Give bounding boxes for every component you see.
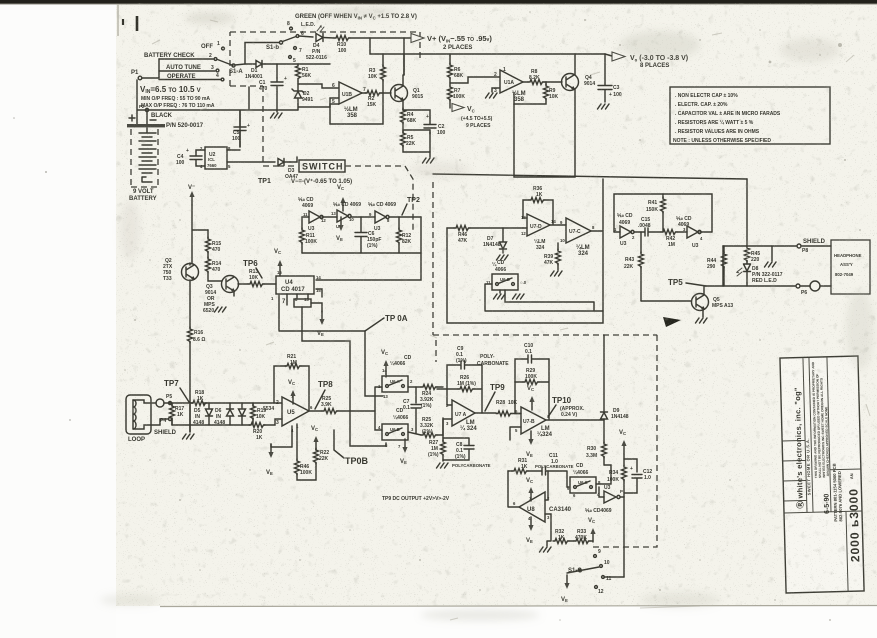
wire R16 line to gnd [183, 403, 195, 439]
ground below C3 [598, 104, 610, 109]
connector P5 [151, 394, 172, 407]
wire D1 to node [265, 63, 330, 65]
capacitor C6 150pF [355, 217, 381, 253]
Vc arrow U8 [526, 478, 534, 501]
resistor R5 22K [401, 130, 416, 147]
resistor R7 100K [448, 85, 466, 108]
search loop coil [126, 395, 151, 443]
wire Q2 emitter down [189, 263, 191, 328]
wire TP5 node [704, 283, 747, 294]
Vc arrow R34 [619, 430, 627, 454]
resistor R42 1M [661, 230, 687, 249]
resistor R4 68K [401, 108, 417, 130]
SWITCH dashed label [278, 160, 413, 231]
diode D3 OA47 [278, 159, 298, 181]
wire U4 control to U6A [365, 331, 383, 396]
VE arrow U5 [266, 440, 292, 476]
box B enclosure [614, 194, 712, 232]
wire U2 pin8 up to C5 [227, 111, 240, 150]
analog switch U6-B [378, 424, 414, 449]
capacitor C11 1.0 [535, 453, 574, 487]
VE arrow osc [336, 217, 344, 242]
wire U7C out to box edge [591, 230, 603, 232]
dashed box mid right [433, 182, 657, 547]
resistor R44 290 [707, 246, 727, 286]
switch S1-A [201, 41, 243, 81]
transistor Q1 9015 [391, 85, 424, 102]
diode D6 1N4148 [214, 403, 234, 426]
capacitor C7 0.1 [403, 399, 421, 411]
wire U8 pin3 to R32 [545, 514, 551, 546]
wire R30 to U6C net [596, 465, 611, 484]
resistor R1 56K [296, 64, 312, 81]
resistor R36 1K [523, 186, 553, 224]
wire D3 onward [290, 157, 297, 162]
opamp U7-D [521, 214, 556, 251]
diode D9 1N4148 [601, 335, 629, 443]
resistor R30 3.3M [586, 442, 607, 465]
resistor R22 22K [314, 448, 330, 466]
label OPERATE [159, 74, 221, 80]
wire R1 junction to U1B [298, 84, 338, 88]
ink blob arrow [663, 317, 681, 327]
battery 9V [127, 124, 165, 202]
label BATTERY CHECK [144, 53, 213, 59]
switch S1-C [567, 549, 612, 595]
resistor R6 68K [448, 54, 464, 86]
page bottom edge [160, 606, 877, 607]
Vc arrow U5 [288, 380, 296, 404]
capacitor C1 470 [259, 76, 287, 92]
resistor R3 10K [368, 54, 386, 93]
wire U7D out to U7C [550, 224, 566, 226]
label TP6 [243, 259, 262, 278]
wire U4 control to U6B [302, 307, 386, 446]
Vc arrow R22 [311, 426, 319, 450]
V* arrow top [188, 185, 195, 205]
grounds U6D [494, 290, 525, 299]
resistor R9 10K [514, 82, 559, 104]
resistor R33 470K [569, 529, 593, 544]
label TP0B [334, 430, 369, 466]
VE arrow below U4 [317, 311, 325, 337]
resistor R24 3.92K [420, 385, 443, 410]
diode D6b [239, 403, 246, 425]
resistor R27 1M [428, 435, 446, 461]
U5 pin wires below [292, 424, 297, 460]
resistor R20 1K [249, 423, 265, 442]
label BLACK [150, 113, 173, 120]
VE arrow U6B [400, 439, 408, 465]
wire rail down x404 [403, 38, 405, 75]
inverter U3c [369, 211, 390, 232]
wire bottom row y425 [172, 419, 282, 425]
label AUTO TUNE [159, 65, 215, 71]
Vo output arrow [612, 52, 688, 69]
resistor R32 1K [553, 529, 569, 544]
node P1 [131, 70, 142, 80]
resistor R15 470 [206, 230, 222, 258]
ground R32 [540, 547, 552, 552]
wire Q4 collector to rail [574, 54, 576, 75]
LED D4 green [306, 26, 327, 61]
resistor R29 100K [515, 359, 549, 420]
P6 wire [723, 281, 831, 296]
label TP10 [548, 396, 585, 418]
VE arrow U8 [526, 517, 534, 544]
opamp U1A [494, 67, 526, 103]
resistor R46 47K [447, 226, 523, 245]
inverter U3b [331, 210, 354, 229]
opamp U7-B [515, 407, 553, 438]
wire node to regulator rail [370, 38, 404, 54]
wire inverter output to S1C [623, 497, 625, 577]
resistor R13 10K [238, 269, 276, 287]
output wire U5 [309, 410, 322, 412]
inverter U3f [585, 485, 623, 514]
wire U1B feedback loop [330, 93, 383, 124]
wires U7A inputs [437, 389, 452, 435]
V+ rail top right [404, 54, 605, 56]
ground D7 [497, 255, 509, 260]
analog switch U6-C [567, 477, 601, 498]
capacitor C15 .0048 [634, 217, 661, 236]
resistor R25 3.9K [321, 396, 375, 414]
wire inv U3d output down to R43 [640, 232, 642, 253]
resistor R12 82K [397, 217, 412, 253]
wire U8 pin2 to C11 node [545, 471, 548, 500]
wire R10 to V+ arrow [350, 37, 411, 39]
opamp U1B [332, 82, 366, 119]
text GREEN LED note [295, 14, 417, 28]
wire U5 pin to VE [271, 444, 292, 447]
wire Q4 emitter down and across [514, 89, 575, 177]
wire R7 to U1A [450, 77, 499, 83]
analog switch U6-A [378, 368, 413, 399]
resistor R16 8.6 [188, 327, 206, 432]
switch S1-B [266, 21, 304, 64]
Vc output arrow [452, 104, 493, 130]
notes box [670, 87, 830, 144]
IC U4 CD4017 [271, 270, 321, 305]
label TP2 [402, 197, 420, 215]
wire U6D left [485, 284, 603, 311]
box A enclosure [447, 179, 603, 323]
analog switch U6-D [486, 274, 527, 290]
VE arrow S1C [561, 575, 570, 603]
inverter U3a [303, 211, 326, 232]
wires U7B [510, 382, 604, 440]
wire top row y403 [170, 402, 282, 404]
label TP5 [668, 278, 706, 287]
ground stub on shield [765, 246, 777, 267]
wires U6A [375, 374, 421, 430]
wire R43 to Q5 base [641, 300, 691, 302]
resistor R11 100K [300, 217, 318, 253]
Vc arrow U6A [381, 350, 389, 374]
left vertical connecting shield to P6 line [722, 246, 724, 286]
wire node down to C1 [276, 64, 278, 78]
label TP8 [315, 380, 333, 409]
resistor R8 8.2K [523, 69, 546, 85]
wire S1-A to D1 [235, 64, 252, 65]
resistor R41 150K [646, 194, 666, 232]
capacitor C8 0.1 [443, 438, 491, 468]
resistor R17 1K [170, 403, 185, 425]
Vc arrow U7B [527, 386, 535, 410]
Vc arrow osc [337, 185, 346, 211]
resistor R19 10K [251, 403, 267, 425]
label TP7 [164, 379, 189, 402]
opamp U5 5534 [263, 394, 313, 433]
transistor Q3 [203, 276, 239, 315]
resistor R2 15K [362, 91, 391, 109]
osc bottom rail [302, 252, 421, 254]
U4 bottom pin wires [279, 294, 308, 330]
opamp U7-C [560, 218, 595, 257]
capacitor C4 100 [176, 148, 205, 166]
resistor R10 100 [323, 36, 350, 55]
ground R27 C8 [437, 463, 449, 468]
TP2 wire to U4 pin14 [316, 217, 421, 280]
wire P1 to selector bracket [142, 59, 159, 78]
Vc arrow R33 [588, 518, 596, 542]
LED D8 red [737, 264, 783, 284]
dashed switch enclosure [230, 32, 420, 166]
wire P1 rail down to battery plus [136, 110, 138, 124]
wire top rail down to R45 [746, 179, 748, 246]
node P2 [139, 104, 149, 112]
transistor Q5 MPS A13 [692, 294, 734, 311]
wire U6C control to inverter [599, 487, 624, 497]
Vin info frame [137, 80, 298, 110]
resistor R14 470 [206, 257, 223, 281]
wire U8 output to R31 node [508, 471, 519, 507]
ground below C1 [271, 92, 283, 118]
opamp U7-A [446, 400, 477, 432]
title block outline [780, 356, 864, 593]
wire S1-B to LED D4 [299, 36, 313, 37]
capacitor C12 1.0 [624, 459, 652, 493]
diode D5 1N4148 [193, 403, 213, 426]
transistor Q2 [163, 258, 199, 282]
connector P4 [151, 418, 172, 426]
resistor R45 220 [745, 246, 761, 264]
zener D2 9491 [292, 81, 313, 104]
sub box below U4 [294, 299, 322, 312]
VE arrow U7B [526, 431, 534, 458]
resistor R39 47K [544, 243, 561, 270]
V+ output arrow [411, 34, 492, 52]
osc signal wires [302, 216, 421, 218]
wire rail to Vo arrow [605, 54, 612, 56]
label TP0A [279, 314, 408, 331]
resistor R18 1K [191, 390, 207, 406]
page left edge [117, 4, 119, 36]
ground Q1 chain [403, 145, 434, 163]
ground Q5 [696, 309, 708, 323]
top scanner band [0, 0, 877, 4]
wire Q3 emitter [233, 291, 235, 296]
capacitor C9 0.1 poly [447, 346, 509, 389]
resistor R28 10K [496, 400, 520, 416]
resistor R21 1M feedback [274, 354, 309, 410]
fine print column [811, 361, 830, 478]
wire U7A out [475, 412, 496, 414]
V* rail down [192, 205, 208, 263]
headphone box [831, 240, 870, 294]
transistor Q4 9014 [546, 74, 595, 91]
wire Q1 collector / emitter [403, 54, 404, 110]
wire U7D in [523, 218, 527, 228]
ground R39 [551, 271, 563, 276]
opamp U8 CA3140 [513, 492, 572, 522]
resistor R25 3.32K [420, 417, 443, 438]
wires U6B [408, 387, 421, 435]
wire D2 to U1B input [298, 98, 338, 110]
capacitor C10 0.1 [515, 343, 549, 382]
C9 loop vertical right [481, 365, 483, 413]
label TP9 [485, 383, 505, 411]
title block inner lines [780, 357, 864, 593]
Vc arrow U4 [274, 249, 283, 276]
wire S1-B pivot to main rail [245, 43, 280, 65]
resistor R34 100K [607, 454, 627, 497]
diode D1 1N4001 [245, 61, 265, 81]
resistor R46b 100K [295, 459, 317, 480]
capacitor C5 100 [232, 111, 250, 147]
ground U1A pin3 [486, 88, 500, 98]
battery plus sign [129, 115, 135, 121]
wire pin15 [316, 289, 322, 297]
inverter U3d [614, 226, 635, 247]
capacitor C2 100 [403, 110, 446, 152]
wire S1C contact to vertical [604, 576, 624, 578]
wire U2 right to D3 [227, 161, 275, 163]
capacitor C3 100 [598, 54, 622, 102]
solid top rail to LED chain [433, 174, 747, 179]
IC U2 ICL7660 [200, 146, 231, 169]
resistor R31 1K [508, 458, 542, 474]
junction feedback R3 [382, 92, 384, 94]
resistor R26 1M [447, 375, 482, 392]
diode D7 1N4148 [483, 228, 507, 253]
shield wire P8 [723, 239, 831, 254]
wire P2 to battery [146, 112, 148, 124]
resistor R43 22K [624, 252, 644, 301]
inverter U3e [683, 226, 712, 249]
